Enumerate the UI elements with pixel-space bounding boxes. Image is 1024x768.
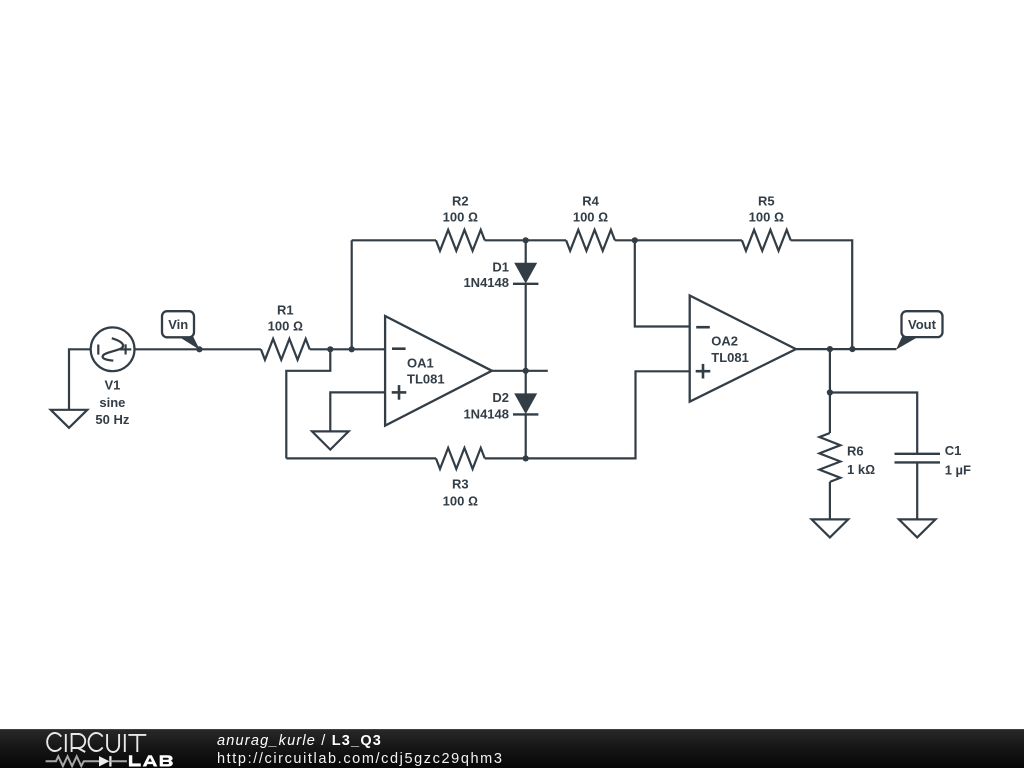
op-amp OA1 <box>385 316 492 426</box>
label R4 100Ω <box>573 194 608 225</box>
svg-text:D1: D1 <box>492 259 509 274</box>
wire: junction up to R2 line <box>351 240 353 349</box>
ground (C1) <box>899 519 936 537</box>
label OA2 TL081 <box>711 334 749 365</box>
svg-text:100 Ω: 100 Ω <box>573 209 608 224</box>
node: R4/R5/OA2 junction <box>632 237 638 243</box>
net flag Vout <box>896 311 943 350</box>
wire: OA2 output <box>796 348 896 350</box>
svg-text:R1: R1 <box>277 302 294 317</box>
diode D2 <box>513 371 538 459</box>
node: R6/C1 branch <box>827 389 833 395</box>
wire: bottom line to OA2 non-inverting input <box>485 371 690 458</box>
wire: output down to R6 <box>829 349 831 433</box>
wire: OA1 output stub <box>492 370 548 372</box>
svg-text:R2: R2 <box>452 194 469 209</box>
svg-text:1N4148: 1N4148 <box>463 406 509 421</box>
svg-text:sine: sine <box>99 395 125 410</box>
svg-text:D2: D2 <box>492 390 509 405</box>
svg-text:100 Ω: 100 Ω <box>268 319 303 334</box>
logo resistor glyph <box>46 756 99 766</box>
diode D1 <box>513 240 538 370</box>
svg-text:1 kΩ: 1 kΩ <box>847 462 875 477</box>
wire: OA1 ground branch <box>330 392 385 431</box>
label R1 100Ω <box>268 302 303 333</box>
svg-text:R6: R6 <box>847 444 864 459</box>
ground (R6) <box>812 519 849 537</box>
label C1 1uF <box>945 443 971 478</box>
node: R2 riser junction <box>349 346 355 352</box>
svg-text:OA2: OA2 <box>711 334 738 349</box>
svg-text:OA1: OA1 <box>407 355 434 370</box>
svg-text:50 Hz: 50 Hz <box>95 412 129 427</box>
ground (OA1 non-inverting input) <box>312 431 349 449</box>
svg-text:R5: R5 <box>758 194 775 209</box>
CircuitLab logo word CIRCUIT <box>47 733 146 752</box>
label R3 100Ω <box>443 476 478 508</box>
svg-text:Vout: Vout <box>908 317 937 332</box>
svg-text:R4: R4 <box>582 194 599 209</box>
footer url <box>217 751 504 767</box>
ground (V1) <box>51 410 88 428</box>
resistor R6 <box>819 433 840 482</box>
wire: junction down to OA2 inverting input <box>635 240 690 326</box>
svg-text:R3: R3 <box>452 476 469 491</box>
svg-text:100 Ω: 100 Ω <box>443 209 478 224</box>
capacitor C1 <box>895 454 941 520</box>
node: feedback junction <box>327 346 333 352</box>
wire: V1 left lead down to ground <box>69 349 91 410</box>
node: OA1 output junction <box>523 368 529 374</box>
resistor R4 <box>566 230 615 251</box>
label D1 1N4148 <box>463 259 509 290</box>
label V1 sine 50 Hz <box>95 378 129 428</box>
label R5 100Ω <box>749 194 784 225</box>
wire: R4 to R5 <box>615 239 742 241</box>
op-amp OA2 <box>690 296 796 402</box>
wire: bottom line left to R3 <box>286 457 436 459</box>
svg-text:TL081: TL081 <box>407 372 445 387</box>
label D2 1N4148 <box>463 390 509 422</box>
node: R2/R4/D1 junction <box>523 237 529 243</box>
node: output R6 branch <box>827 346 833 352</box>
wire: V1 to R1 <box>135 348 261 350</box>
node: output R5 feedback <box>849 346 855 352</box>
svg-text:V1: V1 <box>104 378 120 393</box>
wire: top line to R2 <box>352 239 436 241</box>
wire: R6 to ground <box>829 482 831 520</box>
svg-text:C1: C1 <box>945 443 962 458</box>
svg-text:100 Ω: 100 Ω <box>749 209 784 224</box>
svg-text:Vin: Vin <box>168 317 188 332</box>
wire: R1 to OA1 inverting input <box>310 348 385 350</box>
label R2 100Ω <box>443 194 478 225</box>
wire: feedback junction down to bottom line <box>286 349 330 458</box>
svg-text:TL081: TL081 <box>711 350 749 365</box>
resistor R5 <box>742 230 791 251</box>
label OA1 TL081 <box>407 355 445 386</box>
wire: branch over to C1 <box>830 393 917 454</box>
node: Vin tap dot <box>196 346 202 352</box>
resistor R3 <box>436 448 485 469</box>
node: D2/R3 junction <box>523 455 529 461</box>
net flag Vin <box>162 311 200 350</box>
wire: R2 to D1 node <box>485 239 566 241</box>
footer bar <box>0 729 1024 768</box>
svg-text:100 Ω: 100 Ω <box>443 494 478 509</box>
CircuitLab logo word LAB <box>129 755 173 766</box>
svg-text:1N4148: 1N4148 <box>463 275 509 290</box>
resistor R2 <box>436 230 485 251</box>
logo diode glyph <box>99 756 109 766</box>
wire: R5 to output node <box>791 240 853 349</box>
voltage source V1 <box>91 327 135 371</box>
label R6 1kΩ <box>847 444 875 477</box>
footer title <box>217 733 382 749</box>
svg-text:1 µF: 1 µF <box>945 462 971 477</box>
